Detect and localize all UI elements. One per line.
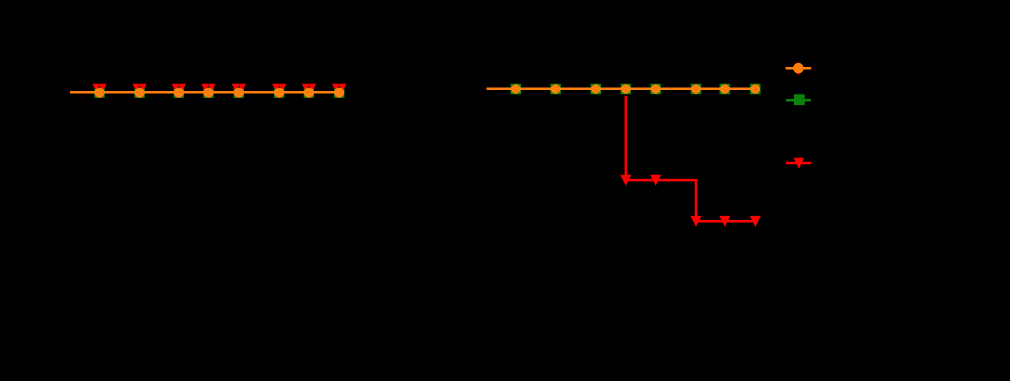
right orange circle marker 6 bbox=[691, 84, 700, 93]
right green square marker 7 bbox=[720, 84, 731, 95]
legend entry 1: red diamond behind circle bbox=[795, 62, 801, 76]
left subplot orange line (series 1) bbox=[70, 91, 339, 94]
left orange circle marker 8 bbox=[334, 88, 344, 98]
left red triangle marker 8 bbox=[332, 84, 346, 96]
left dark notch 3 bbox=[177, 85, 180, 88]
left red triangle marker 3 bbox=[172, 84, 186, 96]
right green square marker 4 bbox=[621, 84, 632, 95]
left green square marker 4 bbox=[203, 88, 213, 98]
right orange circle marker 1 bbox=[511, 84, 520, 93]
right orange circle marker 5 bbox=[651, 84, 660, 93]
left dark notch 7 bbox=[307, 85, 310, 88]
left orange circle marker 6 bbox=[274, 88, 284, 98]
left green square marker 6 bbox=[274, 88, 284, 98]
left dark notch 1 bbox=[98, 85, 101, 88]
left orange circle marker 3 bbox=[174, 88, 184, 98]
legend red triangle bbox=[794, 158, 805, 169]
right red triangle marker 5 bbox=[750, 216, 761, 227]
left dark notch 6 bbox=[278, 85, 281, 88]
legend green square bbox=[794, 94, 805, 105]
left green square marker 1 bbox=[94, 88, 104, 98]
left green square marker 5 bbox=[234, 88, 244, 98]
left orange circle marker 7 bbox=[304, 88, 314, 98]
left red triangle marker 7 bbox=[302, 84, 316, 96]
left dark notch 5 bbox=[237, 85, 240, 88]
right green square marker 5 bbox=[650, 84, 661, 95]
right orange circle marker 4 bbox=[621, 84, 630, 93]
right orange circle marker 8 bbox=[751, 84, 760, 93]
right green square marker 8 bbox=[750, 84, 761, 95]
legend entry 1: red under-line bbox=[785, 67, 812, 69]
right green square marker 1 bbox=[511, 84, 522, 95]
left green square marker 2 bbox=[134, 88, 144, 98]
legend entry 2: green line bbox=[786, 99, 811, 102]
legend orange circle bbox=[793, 63, 804, 74]
left red triangle marker 2 bbox=[132, 84, 146, 96]
left red triangle marker 5 bbox=[232, 84, 246, 96]
left orange circle marker 4 bbox=[203, 88, 213, 98]
left orange circle marker 5 bbox=[234, 88, 244, 98]
right red triangle marker 2 bbox=[650, 175, 661, 186]
right red triangle marker 4 bbox=[719, 216, 730, 227]
right subplot orange line (series 1) bbox=[487, 88, 756, 91]
right green square marker 3 bbox=[591, 84, 602, 95]
left green square marker 8 bbox=[334, 88, 344, 98]
left red triangle marker 6 bbox=[272, 84, 286, 96]
right orange circle marker 3 bbox=[591, 84, 600, 93]
left dark notch 2 bbox=[138, 85, 141, 88]
left green square marker 7 bbox=[304, 88, 314, 98]
right subplot: red step line (series 3) bbox=[626, 96, 756, 221]
left orange circle marker 1 bbox=[94, 88, 104, 98]
left dark notch 4 bbox=[207, 85, 210, 88]
right orange circle marker 2 bbox=[551, 84, 560, 93]
legend entry 3: red line bbox=[786, 162, 811, 165]
left red triangle marker 1 bbox=[92, 84, 106, 96]
right green square marker 2 bbox=[550, 84, 561, 95]
left green square marker 3 bbox=[174, 88, 184, 98]
left red triangle marker 4 bbox=[201, 84, 215, 96]
left orange circle marker 2 bbox=[135, 88, 145, 98]
right red triangle marker 3 bbox=[690, 216, 701, 227]
right orange circle marker 7 bbox=[720, 84, 729, 93]
legend entry 1: orange line bbox=[786, 67, 811, 70]
right red triangle marker 1 bbox=[620, 175, 631, 186]
left dark notch 8 bbox=[338, 85, 341, 88]
right green square marker 6 bbox=[691, 84, 702, 95]
